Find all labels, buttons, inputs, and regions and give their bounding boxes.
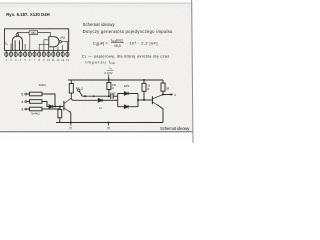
terminal pin 11 xyxy=(78,89,80,91)
formula C1 xyxy=(93,38,158,48)
node RB bottom on wire1 xyxy=(108,95,110,97)
diode D4 bottom xyxy=(124,105,128,109)
pin loops row xyxy=(5,52,69,56)
svg-text:2 (µ)V: 2 (µ)V xyxy=(104,71,112,75)
wire G2 output to box edge xyxy=(61,41,68,43)
resistor R4 xyxy=(30,100,43,104)
wire1 arrow xyxy=(84,95,87,97)
IC outline box xyxy=(5,29,69,51)
resistor RE pulldown xyxy=(58,110,62,118)
output arrow xyxy=(171,93,174,95)
wire pin11 down to wire1 xyxy=(79,91,110,96)
resistor RC xyxy=(142,83,146,91)
wire label box to gate G2 xyxy=(38,32,51,36)
+V top rail xyxy=(68,79,163,81)
svg-text:C1[µF] =: C1[µF] = xyxy=(93,41,109,47)
wire pin 6 riser feedback xyxy=(29,35,31,51)
wire pin 9 to G2 input xyxy=(43,40,45,51)
wire D1 to T1 base xyxy=(53,106,64,108)
capacitor C1 xyxy=(111,94,113,99)
resistor RA collector load xyxy=(69,84,73,94)
wire term3 to R3 xyxy=(27,108,30,110)
svg-text:4: 4 xyxy=(21,100,23,104)
wire C1 to DP1 left xyxy=(114,95,118,97)
diode D3 top xyxy=(124,92,128,96)
wire RD to output node xyxy=(162,91,164,94)
wire pin 13 riser xyxy=(62,45,64,50)
node output xyxy=(162,94,164,96)
gate G1 output bubble xyxy=(16,34,19,37)
ground stub 1 xyxy=(70,123,72,126)
wire RB to wire1 xyxy=(108,90,110,97)
wire rail to RC xyxy=(143,80,145,83)
T2 emitter arrow xyxy=(157,104,159,106)
svg-text:(P)1: (P)1 xyxy=(60,36,66,40)
svg-text:DP1: DP1 xyxy=(124,84,130,88)
svg-text:3x4kΩ: 3x4kΩ xyxy=(31,111,40,115)
node DP1 right xyxy=(137,99,139,101)
node RC top xyxy=(143,79,145,81)
wire R5 to bus xyxy=(42,94,55,107)
wire pin 2 riser xyxy=(10,44,12,51)
wire bus to RE xyxy=(59,107,61,110)
node bus5 xyxy=(54,106,56,108)
svg-text:(7): (7) xyxy=(69,126,72,130)
wire D2 to DP1 left xyxy=(102,99,118,101)
wire RA to T1 collector xyxy=(70,93,72,98)
gate G2 NAND xyxy=(49,37,59,47)
svg-text:Ω: Ω xyxy=(112,86,114,90)
page edge right line xyxy=(192,0,193,143)
label box NB1 xyxy=(29,31,38,35)
pin numbers xyxy=(6,58,70,62)
svg-text:Schemat ideowy: Schemat ideowy xyxy=(160,126,190,131)
svg-text:(7): (7) xyxy=(107,126,110,130)
ground stub 2 xyxy=(107,123,109,126)
node bus3 xyxy=(59,106,61,108)
svg-text:10kΩ: 10kΩ xyxy=(39,83,47,87)
wire output xyxy=(163,94,171,96)
resistor RB xyxy=(107,83,111,90)
svg-text:Dotyczy generatora pojedynczeg: Dotyczy generatora pojedynczego impulsu xyxy=(83,29,173,34)
gate G2 output bubble xyxy=(59,41,61,43)
gate G1 dome xyxy=(12,36,22,50)
wire pin 14 riser to output wire xyxy=(66,42,68,51)
T1 emitter arrow xyxy=(69,111,71,113)
supply arrow to rail xyxy=(108,75,110,79)
svg-text:Rys. 6.187. X130 D4H: Rys. 6.187. X130 D4H xyxy=(6,12,50,17)
wire pin 8 to G2 input xyxy=(38,44,40,50)
wire pin 11 riser xyxy=(52,47,54,51)
wire pin 10 riser xyxy=(48,47,50,51)
resistor RD xyxy=(161,83,165,91)
svg-text:58: 58 xyxy=(166,87,170,91)
wire pin 12 riser xyxy=(57,47,59,51)
DP1 right bar xyxy=(137,94,139,107)
svg-text:imp: imp xyxy=(111,61,116,65)
svg-text:· 104 - 2,2 [nF]: · 104 - 2,2 [nF] xyxy=(126,40,157,45)
wire term4 to R4 xyxy=(27,101,30,103)
wire T2 emitter to ground xyxy=(159,106,163,123)
wire RC to wire3 xyxy=(143,91,145,100)
DP1 top branch wire xyxy=(118,93,138,95)
svg-text:15,3: 15,3 xyxy=(114,44,121,48)
node T1 emitter ground xyxy=(70,122,72,124)
DP1 left bar xyxy=(117,94,119,107)
wire bubble to label box xyxy=(17,32,29,33)
ground rail xyxy=(56,122,163,124)
node supply junction xyxy=(108,79,110,81)
wire R3 to bus xyxy=(42,107,60,110)
svg-text:NB1: NB1 xyxy=(31,32,36,35)
svg-text:3: 3 xyxy=(21,108,23,112)
wire rail to RD xyxy=(162,80,164,83)
diode D2 xyxy=(98,99,102,103)
wire2 T1 collector to DP1 xyxy=(71,98,98,100)
wire RE to ground rail xyxy=(59,118,61,123)
wire rail to RB xyxy=(108,80,110,83)
svg-text:C1 — papierowy, dla której okr: C1 — papierowy, dla której określa się c… xyxy=(82,53,170,58)
wire R4 to diode D1 xyxy=(42,102,49,107)
wire rail to RA xyxy=(70,80,72,84)
pin leads xyxy=(6,50,67,57)
diode D1 xyxy=(49,105,53,108)
wire term5 to R5 xyxy=(27,93,30,95)
paper background xyxy=(0,0,200,143)
wire3 DP1 to T2 base xyxy=(138,99,152,101)
figure frame bottom line xyxy=(0,131,193,133)
wire pin 5 riser xyxy=(24,44,26,50)
resistor R3 xyxy=(30,107,43,111)
node wire1 mid xyxy=(93,95,95,97)
svg-text:Ω: Ω xyxy=(147,87,149,91)
svg-text:5: 5 xyxy=(21,93,23,97)
page rule top line 1 xyxy=(0,2,192,4)
transistor T2 xyxy=(152,95,163,107)
svg-text:impulsu t: impulsu t xyxy=(86,59,111,64)
page rule top line 2 xyxy=(0,5,192,7)
svg-text:Schemat ideowy: Schemat ideowy xyxy=(83,22,116,27)
node RC bottom xyxy=(143,99,145,101)
transistor T1 xyxy=(64,98,71,113)
DP1 bottom branch wire xyxy=(118,106,138,108)
resistor R5 xyxy=(30,92,43,96)
wire T1 emitter to ground xyxy=(70,113,72,123)
